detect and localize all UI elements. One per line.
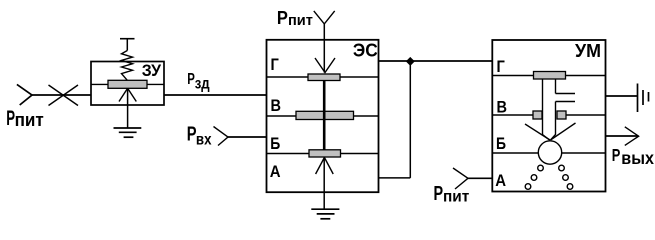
UM divider V xyxy=(493,114,533,116)
UM V guide right xyxy=(551,123,576,140)
supply arrow P_pit left xyxy=(17,84,32,105)
supply arrow Рпит (UM) xyxy=(453,168,468,189)
svg-text:Р: Р xyxy=(277,7,288,28)
svg-text:А: А xyxy=(495,171,506,190)
feedback wire vertical xyxy=(409,61,411,177)
UM seat branch lower xyxy=(556,101,576,103)
vent to atmosphere bars xyxy=(638,84,649,113)
svg-text:зд: зд xyxy=(195,75,210,92)
UM ball valve xyxy=(538,141,561,164)
ES divider B xyxy=(267,153,309,155)
UM seat branch upper xyxy=(556,93,576,95)
svg-text:Р: Р xyxy=(612,145,621,165)
svg-text:Б: Б xyxy=(496,134,506,153)
UM hollow stem left line xyxy=(543,79,550,140)
wire Рзд: ZU to ES xyxy=(164,94,267,96)
svg-text:пит: пит xyxy=(15,110,44,130)
restrictor (throttle X) xyxy=(49,85,79,106)
ES membrane V xyxy=(296,111,354,119)
svg-text:Г: Г xyxy=(271,55,280,74)
ZU spring xyxy=(122,51,133,81)
svg-text:Г: Г xyxy=(497,57,506,76)
ES ground xyxy=(311,209,339,219)
UM seat square right xyxy=(557,111,566,119)
svg-text:УМ: УМ xyxy=(575,41,601,61)
wire Рвх to ES xyxy=(228,136,267,138)
feedback wire horizontal xyxy=(379,177,411,179)
svg-text:ЗУ: ЗУ xyxy=(142,61,162,80)
ES membrane G xyxy=(308,74,340,81)
ZU divider xyxy=(91,83,108,85)
svg-text:В: В xyxy=(497,97,508,116)
svg-text:В: В xyxy=(271,96,282,115)
svg-text:Р: Р xyxy=(434,183,444,205)
svg-text:Б: Б xyxy=(270,134,280,153)
ES stem thick xyxy=(323,80,326,150)
output wire Рвых xyxy=(606,135,639,137)
ZU ground xyxy=(114,128,142,137)
supply Y input (top) xyxy=(314,11,335,24)
output arrow xyxy=(625,127,639,146)
svg-text:А: А xyxy=(270,162,281,181)
input arrow Рвх xyxy=(214,127,229,146)
ES block box xyxy=(267,40,379,192)
svg-text:ЭС: ЭС xyxy=(353,40,378,60)
UM divider G xyxy=(493,75,534,77)
ES membrane B xyxy=(309,150,341,157)
ZU vent stem xyxy=(127,88,129,128)
UM membrane G xyxy=(534,72,566,80)
inner arrowhead onto membrane G xyxy=(315,58,335,73)
wire supply to UM port A xyxy=(468,177,492,179)
svg-text:пит: пит xyxy=(443,189,469,206)
svg-text:вх: вх xyxy=(196,132,212,149)
UM hollow stem right line lower xyxy=(551,102,556,141)
UM block box xyxy=(492,40,605,192)
ZU spring support T xyxy=(120,38,135,40)
ZU block box xyxy=(91,62,164,106)
svg-text:вых: вых xyxy=(621,148,654,168)
svg-text:пит: пит xyxy=(288,12,313,29)
ZU membrane xyxy=(108,80,147,88)
UM V guide left xyxy=(525,124,550,140)
supply drop line xyxy=(323,24,325,73)
UM seat square left xyxy=(533,111,542,119)
ES lower stem to ground xyxy=(323,157,325,209)
vent wire (UM right) xyxy=(606,95,638,97)
UM divider B xyxy=(493,152,538,154)
UM exhaust holes xyxy=(525,165,573,189)
node junction dot xyxy=(406,58,414,66)
wire: supply to ZU xyxy=(32,94,91,96)
ES nozzle xyxy=(316,158,334,175)
ES divider G xyxy=(267,76,308,78)
ES divider V xyxy=(267,115,296,117)
ZU nozzle xyxy=(119,88,136,101)
wire: ES output to UM xyxy=(379,60,493,62)
UM hollow stem right line upper xyxy=(555,79,557,94)
